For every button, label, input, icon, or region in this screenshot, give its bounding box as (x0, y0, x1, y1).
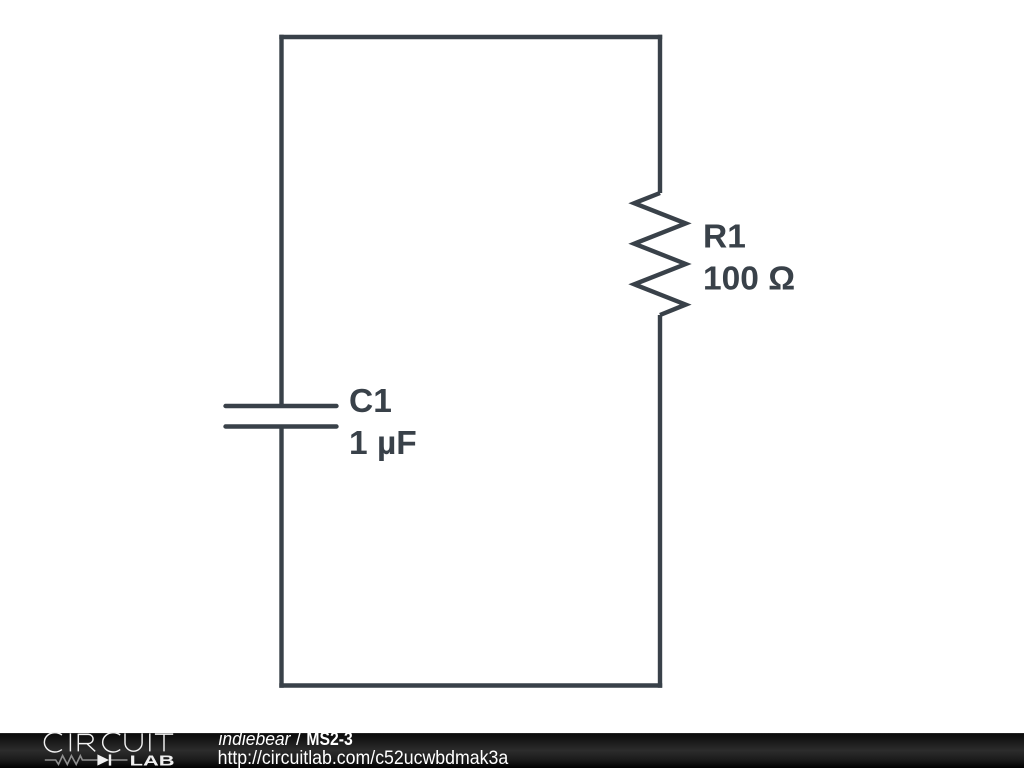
svg-text:100 Ω: 100 Ω (703, 261, 795, 298)
svg-text:http://circuitlab.com/c52ucwbd: http://circuitlab.com/c52ucwbdmak3a (218, 747, 509, 768)
svg-text:LAB: LAB (130, 753, 175, 768)
logo CIRCUIT wordmark (hand-drawn thin geometric letters) (44, 733, 173, 752)
svg-text:C1: C1 (349, 383, 392, 420)
wire left lower (C1 bottom plate down to bottom-left corner) (279, 427, 283, 688)
wire top (node between C1 top and R1 top) (279, 35, 662, 39)
wire right lower (R1 pin 2 down to bottom-right corner) (658, 315, 662, 688)
wire right upper (top-right corner down to R1 pin 1) (658, 35, 662, 193)
logo resistor-diode symbol (45, 756, 128, 765)
svg-text:1 µF: 1 µF (349, 425, 417, 462)
wire bottom (node between C1 bottom and R1 bottom) (279, 683, 662, 687)
capacitor C1 plates (226, 406, 337, 427)
logo diode triangle and cathode bar (97, 754, 111, 765)
svg-text:R1: R1 (703, 218, 746, 255)
resistor R1 zigzag body (634, 193, 685, 315)
wire left upper (top-left corner down to C1 top plate) (279, 35, 283, 406)
footer bar (0, 733, 1024, 768)
